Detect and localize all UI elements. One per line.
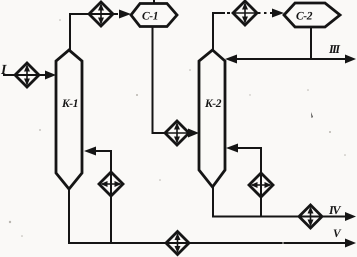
svg-text:C-2: C-2 (296, 10, 313, 22)
dash-dot wire into E4 (227, 12, 231, 14)
wire feed I horizontal line (3, 74, 47, 76)
reboiler heater E6 (on K-2 bottoms recycle) (249, 173, 273, 197)
wire C-2 down to III line (310, 27, 312, 59)
arrowhead IV right (345, 212, 356, 221)
wire K-2 overhead: up then right (213, 13, 225, 50)
separator C-2 hexagon (284, 3, 340, 27)
arrowhead III right (345, 55, 356, 64)
cooler E8 on V line (166, 232, 189, 255)
cooler E7 on IV line (299, 205, 322, 228)
arrowhead reboiler return into K-2 (226, 144, 238, 153)
separator C-1 hexagon (131, 4, 177, 27)
wire III horizontal line (236, 58, 348, 60)
wire C-1 bottoms to K-2 feed (153, 27, 167, 133)
wire K-1 overhead: up then right (70, 14, 118, 50)
heater E3 before K-2 (165, 121, 189, 145)
heater E1 on feed line (15, 63, 39, 87)
condenser-duty symbol E4 on K-2 overhead (233, 1, 257, 25)
condenser-duty symbol E2 on overhead line (89, 2, 113, 26)
column K-2 (199, 50, 225, 187)
arrowhead reboiler return into K-1 (84, 147, 96, 156)
wire K-2 reboiler loop (238, 148, 261, 216)
reboiler heater E5 (on K-1 bottoms recycle) (99, 172, 123, 196)
wire K-1 reboiler loop (96, 151, 111, 243)
arrowhead reflux into K-2 top (225, 55, 237, 64)
svg-text:I: I (0, 63, 7, 78)
arrowhead feed into K-2 (188, 129, 199, 138)
stub wire above C-1 (153, 0, 155, 4)
arrowhead into C-2 (272, 9, 284, 18)
svg-text:K-1: K-1 (61, 98, 78, 110)
svg-text:C-1: C-1 (142, 10, 158, 22)
column K-1 (56, 50, 82, 189)
arrowhead feed into K-1 (45, 71, 56, 80)
wire K-2 bottoms to IV (213, 187, 345, 217)
arrowhead V right (345, 239, 356, 248)
arrowhead into C-1 (119, 10, 131, 19)
svg-text:K-2: K-2 (204, 98, 222, 110)
wire E3 to K-2 (189, 132, 191, 134)
wire K-1 bottoms to V (69, 189, 345, 243)
dotted wire E4 to C-2 (258, 12, 273, 14)
